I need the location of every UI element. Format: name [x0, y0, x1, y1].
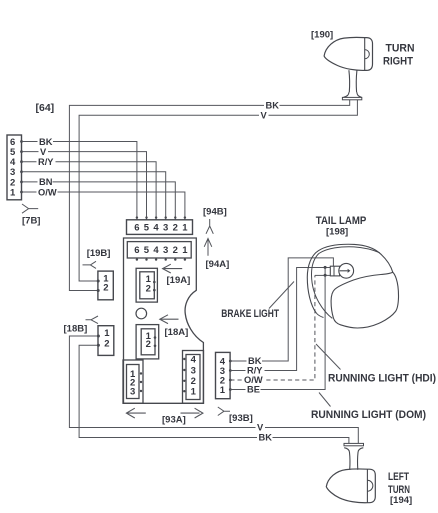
bulb filament: [340, 270, 348, 272]
svg-text:[194]: [194]: [390, 495, 412, 506]
wire V bottom: [18B] pin1 to left-turn lamp: [69, 336, 358, 443]
turn right lamp base plate: [342, 97, 361, 99]
fork symbol [19B]: [83, 261, 97, 268]
svg-text:3: 3: [191, 365, 196, 376]
svg-text:[190]: [190]: [311, 30, 333, 41]
left turn lamp lens arc: [367, 480, 372, 491]
svg-text:2: 2: [146, 283, 151, 294]
connector [18B]: [97, 326, 114, 356]
svg-text:5: 5: [144, 223, 150, 234]
svg-text:RUNNING LIGHT (HDI): RUNNING LIGHT (HDI): [328, 373, 436, 385]
turn right lamp body: [324, 37, 372, 70]
svg-text:1: 1: [182, 223, 188, 234]
connector strip [94B]: [127, 220, 193, 235]
wire pin1 O/W to [94B] pin1: [22, 192, 185, 220]
arrow up [94A]: [207, 240, 209, 256]
wire BK bottom: [18B] pin2 to left-turn lamp: [79, 345, 349, 443]
tail lamp housing outline: [307, 244, 393, 313]
svg-text:1: 1: [104, 328, 110, 339]
svg-text:RUNNING LIGHT (DOM): RUNNING LIGHT (DOM): [311, 409, 426, 421]
svg-text:V: V: [257, 423, 264, 433]
pin dots above [94B]: [136, 216, 186, 218]
svg-text:3: 3: [163, 223, 168, 234]
left turn lamp body: [326, 469, 375, 503]
wire BE from [93B] pin1 to bulb junction: [230, 267, 325, 389]
svg-text:[93B]: [93B]: [229, 413, 253, 424]
svg-text:R/Y: R/Y: [38, 157, 54, 167]
svg-text:LEFT: LEFT: [388, 471, 409, 483]
svg-text:BE: BE: [247, 385, 260, 395]
connector [18A]: [136, 325, 159, 359]
arrow left [93A]: [127, 412, 146, 414]
svg-text:BN: BN: [39, 177, 53, 187]
svg-text:RIGHT: RIGHT: [383, 56, 413, 68]
svg-text:[94B]: [94B]: [203, 207, 227, 218]
svg-text:2: 2: [104, 339, 109, 350]
wire label BK bottom: [257, 433, 273, 443]
tail lamp inner rim top: [319, 247, 380, 254]
svg-text:4: 4: [191, 354, 197, 365]
connector 4-pin bottom right inside body: [183, 351, 204, 404]
connector [19A]: [136, 268, 157, 302]
wire R/Y from [93B] pin3 to bulb: [230, 268, 330, 371]
svg-text:O/W: O/W: [244, 375, 263, 385]
svg-text:V: V: [261, 110, 268, 120]
connector strip [94A]: [127, 242, 191, 258]
connector 3-pin bottom left: [123, 360, 143, 403]
wire label BK top: [264, 101, 280, 111]
arrow right [93A]: [181, 412, 200, 414]
svg-text:[198]: [198]: [326, 227, 348, 238]
svg-text:[19A]: [19A]: [167, 275, 191, 286]
svg-text:5: 5: [144, 245, 150, 256]
svg-text:1: 1: [182, 245, 188, 256]
wire label R/Y: [37, 157, 56, 167]
svg-text:V: V: [40, 147, 47, 157]
leader line brake light: [269, 282, 294, 309]
arrow left [19A]: [164, 268, 183, 270]
svg-text:[19B]: [19B]: [87, 248, 111, 259]
wire label O/W right: [243, 375, 264, 385]
svg-text:[18B]: [18B]: [64, 324, 88, 335]
svg-text:2: 2: [173, 223, 178, 234]
svg-text:2: 2: [146, 339, 151, 350]
fork symbol [93B]: [218, 407, 230, 416]
svg-text:[94A]: [94A]: [206, 259, 230, 270]
circle symbol on body: [136, 308, 147, 319]
svg-text:6: 6: [134, 223, 139, 234]
wire label V top: [259, 110, 269, 120]
turn right lamp seam: [364, 38, 366, 71]
svg-text:1: 1: [191, 387, 197, 398]
connector [93B] 4-pin: [216, 352, 232, 398]
svg-text:BK: BK: [266, 101, 280, 111]
wire label O/W: [37, 187, 58, 197]
wire V top: turn-right lamp to vertical bus to [19B] pin1: [79, 100, 357, 281]
svg-text:2: 2: [173, 245, 178, 256]
left turn lamp base plate: [344, 443, 364, 445]
svg-text:[64]: [64]: [36, 102, 55, 114]
svg-text:BRAKE LIGHT: BRAKE LIGHT: [221, 308, 279, 320]
wire label R/Y right: [246, 366, 265, 376]
svg-text:BK: BK: [248, 356, 262, 366]
junction dots BE: [324, 266, 327, 269]
service connector fork [7B]: [22, 204, 38, 213]
svg-text:4: 4: [153, 223, 159, 234]
svg-text:O/W: O/W: [38, 187, 57, 197]
connector 6-pin left housing: [7, 135, 22, 200]
fork symbol [94B]: [206, 219, 213, 234]
svg-text:6: 6: [134, 245, 139, 256]
svg-text:BK: BK: [39, 137, 53, 147]
left turn lamp stem: [350, 453, 359, 470]
svg-text:TURN: TURN: [386, 43, 415, 55]
wire label BK right: [247, 356, 263, 366]
connector [19B]: [97, 271, 114, 300]
wire pin5 V to [94B] pin5: [22, 152, 147, 220]
svg-text:1: 1: [10, 187, 16, 198]
svg-text:1: 1: [220, 385, 226, 396]
wire pin3 to [94B] pin3: [22, 172, 166, 220]
tail lamp base body outline: [124, 238, 204, 403]
svg-text:4: 4: [153, 245, 159, 256]
wire label BE right: [246, 385, 261, 395]
svg-text:3: 3: [163, 245, 168, 256]
svg-text:[93A]: [93A]: [162, 414, 186, 425]
tail lamp lens top edge: [331, 272, 398, 328]
wire BK from [93B] pin4 to bulb shell: [230, 258, 333, 361]
wire label V bottom: [256, 423, 266, 433]
fork symbol [18B]: [86, 316, 99, 324]
svg-text:2: 2: [103, 283, 108, 294]
svg-text:3: 3: [130, 386, 135, 397]
svg-text:2: 2: [191, 376, 196, 387]
wire pin2 BN to [94B] pin2: [22, 182, 176, 220]
leader line running light DOM: [319, 393, 331, 407]
wire label BN: [38, 177, 53, 187]
svg-text:[7B]: [7B]: [22, 216, 40, 227]
left turn lamp seam: [366, 469, 368, 503]
wire pin6 BK to [94B] pin6: [22, 142, 137, 221]
wire BK top: turn-right lamp to vertical bus to [19B] pin2: [69, 100, 349, 291]
svg-text:TAIL LAMP: TAIL LAMP: [316, 215, 367, 227]
tail lamp inner rim left: [311, 254, 332, 319]
pin dots left connector: [20, 140, 23, 193]
wire label BK: [38, 137, 54, 147]
svg-text:R/Y: R/Y: [247, 366, 263, 376]
turn right lamp stem flare: [344, 92, 362, 97]
bulb circle: [339, 263, 354, 278]
pin dots below [94A]: [136, 258, 186, 260]
arrow left [18A]: [161, 318, 179, 320]
leader line running light HDI: [316, 344, 341, 370]
turn right lamp stem: [349, 70, 357, 92]
svg-text:[18A]: [18A]: [165, 327, 189, 338]
left turn lamp stem flare: [344, 448, 363, 453]
wire pin4 R/Y to [94B] pin4: [22, 162, 157, 220]
wire label V: [39, 147, 49, 157]
bulb socket base: [330, 266, 339, 276]
connector [64] label: [36, 102, 55, 114]
svg-text:BK: BK: [259, 433, 273, 443]
wire O/W dashed from [93B] pin2 to bulb: [230, 275, 315, 380]
turn right lamp lens arc: [365, 50, 370, 59]
